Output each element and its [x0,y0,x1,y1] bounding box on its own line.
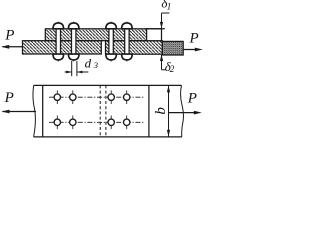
svg-text:3: 3 [93,60,98,70]
arrowhead left P (side view) [1,45,9,49]
hole D [124,90,130,104]
hole F [70,116,76,130]
row centerline bottom [49,121,145,123]
wire: right force line (side view) [183,49,197,51]
hole A [54,90,60,104]
rivet 2 [68,22,79,63]
svg-text:b: b [153,107,169,115]
arrowhead left P (plan view) [2,110,10,114]
hole G [108,116,114,130]
hidden butt gap dashed lines [100,85,106,136]
plan view strap edge left [42,85,44,136]
row centerline top [49,96,145,98]
hole C [108,90,114,104]
svg-text:1: 1 [167,2,172,12]
plan view plate outline [33,85,184,136]
plan view strap edge right [148,85,150,136]
rivet 4 [122,22,133,63]
dimension b [167,85,170,136]
wire: right force line (plan view) [169,112,196,114]
dimension d3 [65,61,89,76]
dimension delta2 leader [160,54,166,70]
cover strap plate (side view) [45,29,165,41]
hole B [70,90,76,104]
hole H [124,116,130,130]
rivet 1 [53,22,64,63]
arrowhead right P (side view) [195,48,203,52]
rivet 3 [106,22,117,63]
dimension delta1 leader [160,13,170,29]
arrowhead right P (plan view) [194,111,202,115]
wire: left force line (plan view) [3,111,37,113]
svg-text:2: 2 [170,65,175,75]
wire: left force line (side view) [3,46,24,48]
svg-text:P: P [189,30,199,46]
svg-text:P: P [4,90,14,106]
hole E [54,116,60,130]
svg-text:P: P [187,91,197,107]
svg-text:d: d [85,55,92,70]
svg-text:P: P [4,28,14,44]
main plate left (side view) [23,41,102,54]
main plate right (side view) [106,41,184,55]
